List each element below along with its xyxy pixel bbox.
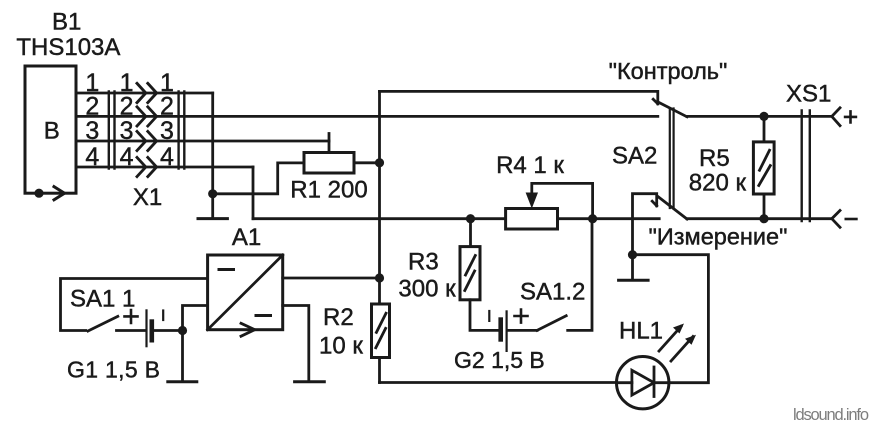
wire A1 upper-left to SA1.1 <box>61 279 208 331</box>
svg-text:3: 3 <box>120 117 134 145</box>
svg-text:HL1: HL1 <box>619 318 663 345</box>
XS1 plus contact <box>832 108 840 126</box>
ground under G1 node <box>168 380 197 383</box>
wire R3 bottom to G2 <box>470 300 498 331</box>
wire R1 left lead step <box>213 163 304 194</box>
svg-text:820 к: 820 к <box>689 170 747 197</box>
R4 wiper arrow <box>526 193 538 209</box>
wire Izmerenie contact riser <box>633 194 657 255</box>
resistor R4 <box>506 209 558 230</box>
A1 diagonal <box>208 255 283 330</box>
ground under SA2 <box>619 279 649 282</box>
arrow on B1 bottom edge <box>54 187 65 200</box>
resistor R1 <box>304 153 354 174</box>
R3 slashes <box>465 256 476 291</box>
main vertical bus wire <box>378 91 381 382</box>
svg-text:"Измерение": "Измерение" <box>649 224 788 250</box>
bottom rail wire to LED <box>380 381 617 384</box>
G1 minus tick <box>162 311 164 321</box>
junction A1 output <box>375 273 384 282</box>
svg-text:4: 4 <box>120 143 134 171</box>
wire node to A1 lower-left <box>183 306 208 331</box>
wire pin1 from B1 to down-turn <box>76 92 213 95</box>
svg-text:SA1.2: SA1.2 <box>520 278 585 305</box>
wire pin4 from B1 <box>76 166 253 169</box>
R5 slashes <box>759 150 771 185</box>
XS1 plus sign <box>845 111 856 122</box>
svg-text:B: B <box>44 118 60 145</box>
junction G1/A1/ground <box>178 326 187 335</box>
wire pin1 vertical to ground node <box>211 93 214 218</box>
switch SA1.2 blade <box>537 316 566 331</box>
wire pin2 from B1 to SA2 <box>76 115 658 118</box>
ground under node <box>198 217 227 220</box>
wire node to ground <box>631 255 634 279</box>
HL1 diode triangle <box>632 370 654 395</box>
svg-text:R3: R3 <box>408 249 439 276</box>
resistor R2 <box>372 304 390 358</box>
svg-text:"Контроль": "Контроль" <box>609 58 728 84</box>
connector X1 bars left pair <box>109 92 115 169</box>
X1 chevrons pin3 <box>137 131 157 150</box>
wire lower net horizontal to SA2 <box>253 217 659 220</box>
junction R4 right <box>588 214 597 223</box>
junction R5 top <box>759 112 768 121</box>
X1 chevrons pin4 <box>137 157 157 176</box>
svg-text:G2 1,5 В: G2 1,5 В <box>454 347 545 373</box>
wire R5 vertical <box>763 116 766 218</box>
wire LED to riser <box>633 255 709 383</box>
svg-text:X1: X1 <box>133 184 162 211</box>
junction R5 bottom <box>759 214 768 223</box>
LED HL1 circle <box>617 357 669 409</box>
svg-text:300 к: 300 к <box>398 276 456 303</box>
svg-text:10 к: 10 к <box>319 332 363 359</box>
pin numbers column 1 <box>85 69 99 171</box>
top net wire to Kontrol contact <box>380 91 658 103</box>
HL1 cathode bar <box>653 367 656 397</box>
svg-text:В1: В1 <box>52 9 81 36</box>
G2 plus sign <box>515 310 528 323</box>
battery G1 negative plate <box>150 322 155 341</box>
battery G2 positive plate <box>506 311 508 351</box>
svg-text:R4 1 к: R4 1 к <box>496 152 564 179</box>
wire node to ground <box>181 331 184 381</box>
switch SA1.1 blade <box>88 316 118 331</box>
XS1 minus sign <box>846 218 857 221</box>
HL1 inner leads <box>617 381 669 384</box>
Kontrol contact tick <box>653 99 658 104</box>
wire G1 to node <box>154 329 183 332</box>
junction node pin1/R1/ground <box>208 189 217 198</box>
R2 slashes <box>376 313 386 348</box>
svg-text:3: 3 <box>85 117 99 145</box>
wire pin4 down-turn <box>252 167 255 219</box>
wire SA2 top pole to XS1 plus <box>687 115 832 118</box>
converter A1 box <box>208 255 283 330</box>
junction R1 right on main vertical <box>375 158 384 167</box>
XS1 minus contact <box>832 211 840 228</box>
sensor B1 box <box>25 66 76 193</box>
Izmerenie contact tick <box>652 201 657 206</box>
svg-text:4: 4 <box>160 143 174 171</box>
connector XS1 bars <box>802 111 810 222</box>
switch SA2 top blade <box>659 103 687 117</box>
wire pin3 from B1 to R1 tap <box>76 140 329 143</box>
switch SA2 bottom blade <box>659 197 688 219</box>
A1 bottom arrow <box>241 323 255 336</box>
A1 minus bottom-right <box>256 314 271 317</box>
ground under A1 right <box>295 380 325 383</box>
HL1 light arrow 2 <box>671 337 693 362</box>
battery G2 negative plate <box>498 320 503 340</box>
A1 minus top-left <box>219 268 234 271</box>
junction R3 top <box>466 214 475 223</box>
wire R3 top lead <box>469 219 472 247</box>
pin numbers column 2 <box>120 69 134 171</box>
svg-text:R2: R2 <box>323 304 354 331</box>
junction on B1 bottom edge <box>34 189 43 198</box>
X1 chevrons pin1 <box>137 83 157 102</box>
G2 minus tick <box>488 311 490 321</box>
junction Izmerenie/ground <box>628 250 637 259</box>
wire SA1.1 to G1 <box>117 329 146 332</box>
wire R1 right lead <box>354 161 380 164</box>
connector X1 bars right pair <box>179 92 185 169</box>
X1 chevrons pin2 <box>137 107 157 126</box>
svg-text:THS103A: THS103A <box>16 34 120 61</box>
HL1 light arrow 1 <box>659 327 681 352</box>
svg-text:G1 1,5 В: G1 1,5 В <box>67 357 160 383</box>
svg-text:SA1 1: SA1 1 <box>70 286 135 313</box>
G1 plus sign <box>125 310 138 323</box>
svg-text:R1 200: R1 200 <box>290 176 367 203</box>
wire A1 output to main vertical <box>283 277 380 280</box>
battery G1 positive plate <box>145 310 147 346</box>
pin numbers column 3 <box>160 69 174 171</box>
wire A1 lower-right to ground <box>283 306 309 381</box>
svg-text:XS1: XS1 <box>786 80 831 107</box>
svg-text:R5: R5 <box>699 145 730 172</box>
svg-text:4: 4 <box>85 143 99 171</box>
R4 wiper wire <box>532 183 593 218</box>
svg-text:SA2: SA2 <box>612 143 657 170</box>
wire SA1.2 right contact <box>568 219 592 331</box>
resistor R5 <box>753 142 774 194</box>
R1 tap lead <box>328 134 331 153</box>
wire G2 to SA1.2 <box>509 329 538 332</box>
wire SA2 bottom pole to XS1 minus <box>687 217 832 220</box>
SA2 gang link <box>670 109 674 209</box>
svg-text:3: 3 <box>160 117 174 145</box>
svg-text:A1: A1 <box>232 224 261 251</box>
resistor R3 <box>460 247 480 300</box>
svg-text:ldsound.info: ldsound.info <box>793 406 869 424</box>
